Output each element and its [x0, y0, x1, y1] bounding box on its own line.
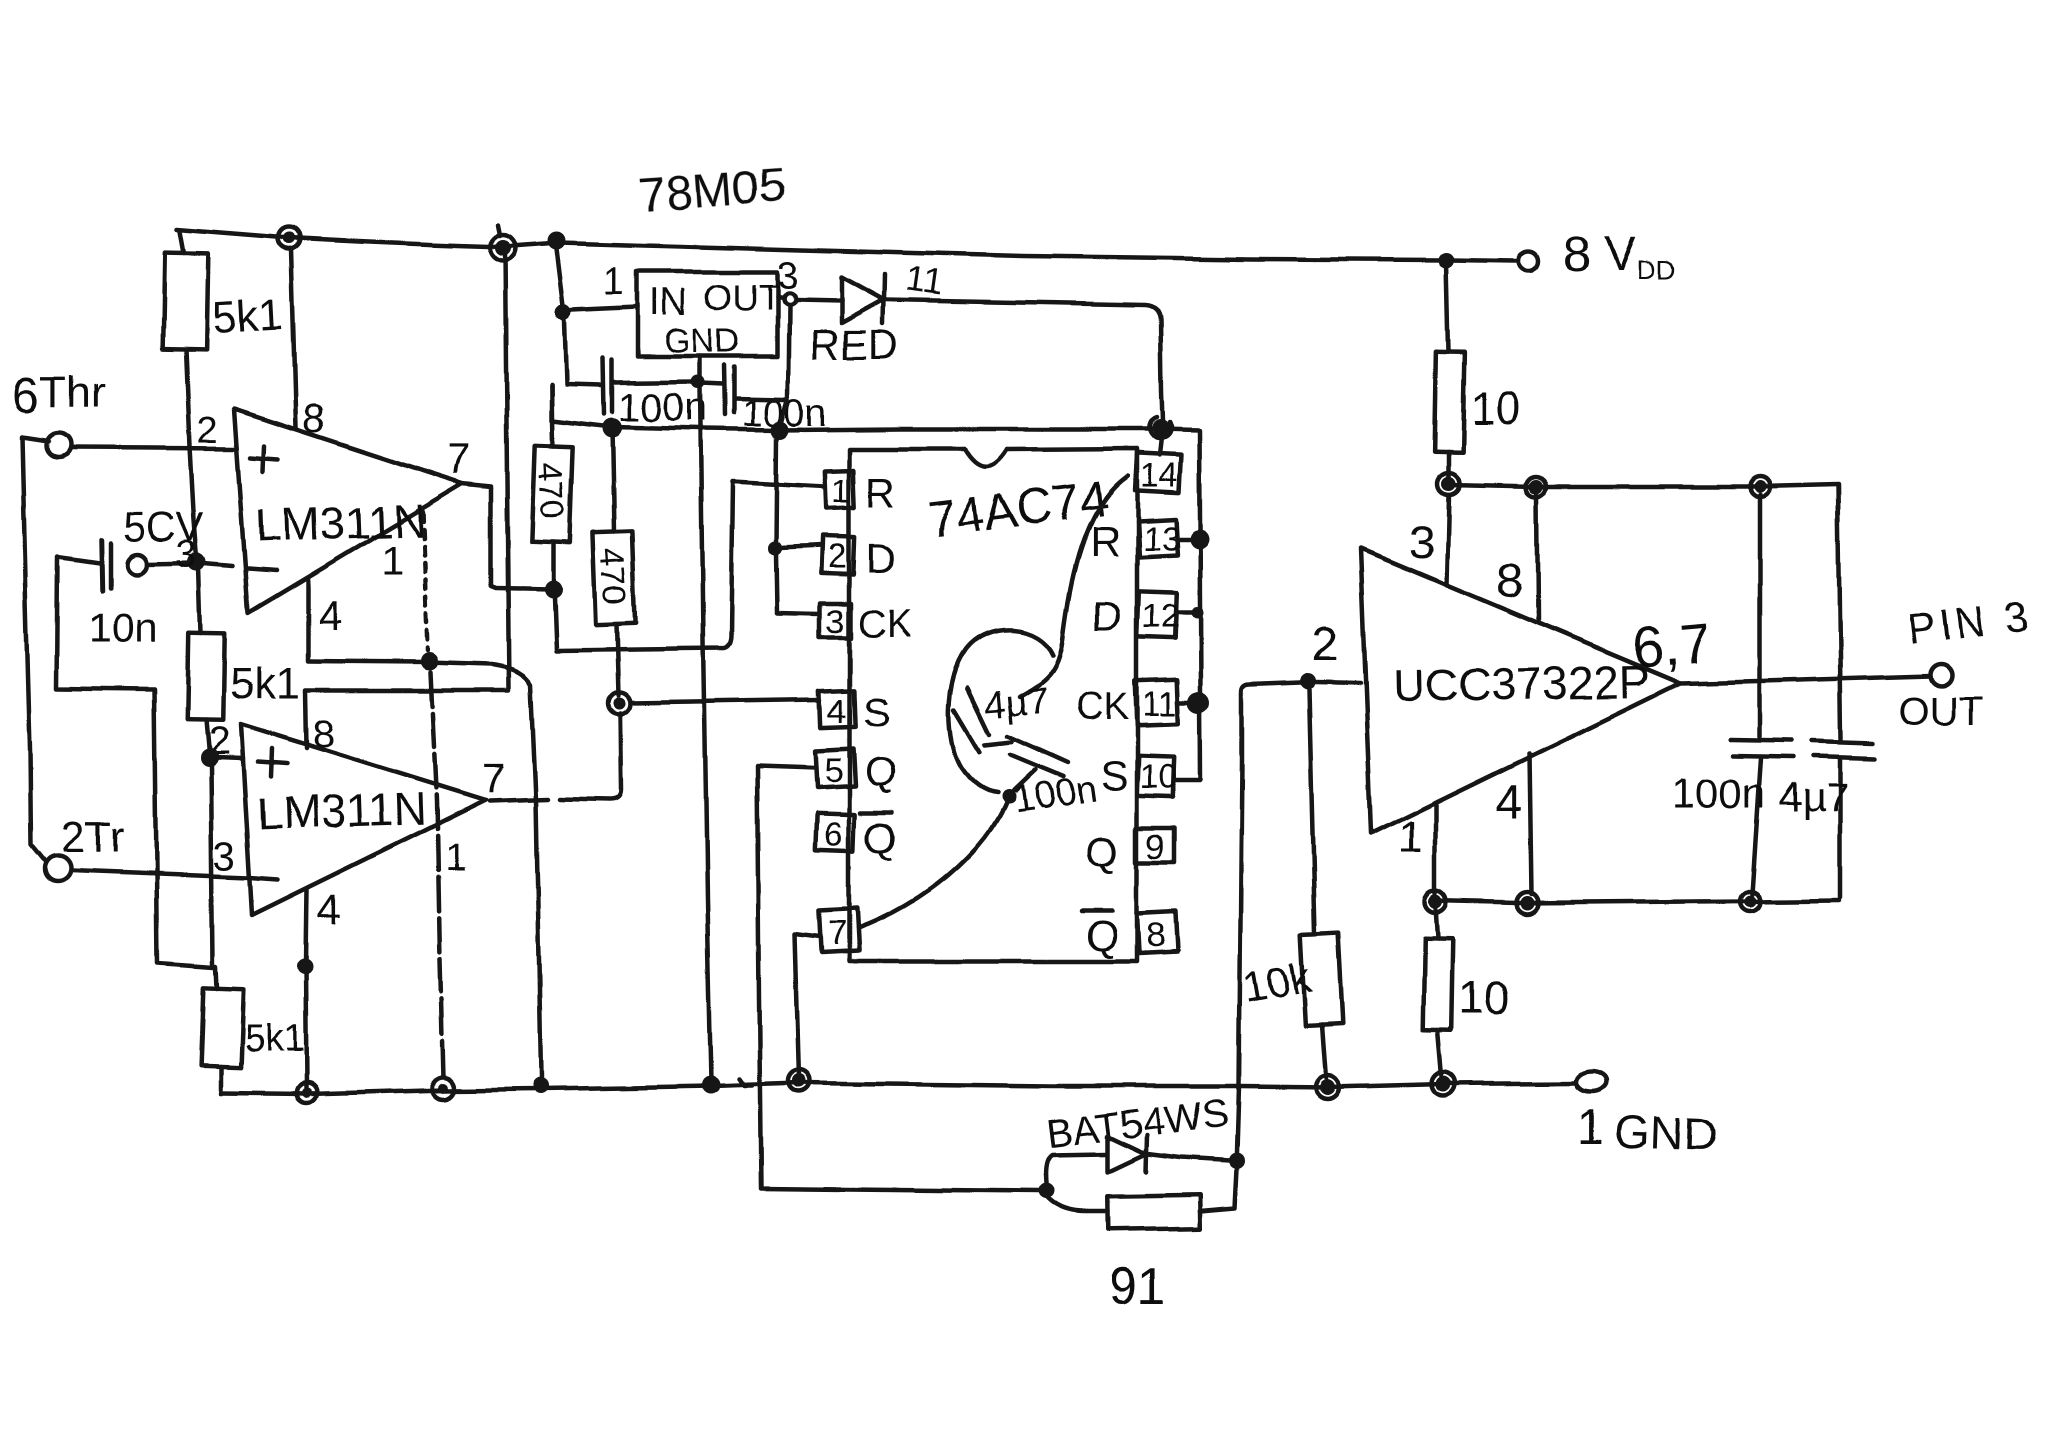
svg-text:1: 1: [604, 261, 625, 303]
svg-text:10: 10: [1470, 382, 1521, 434]
svg-text:2: 2: [1312, 618, 1339, 671]
svg-text:7: 7: [828, 914, 847, 952]
wire: U1 pin4 ground run to bottom rail: [308, 661, 541, 1078]
wire: curve from inside junction to pin 7: [858, 797, 1008, 928]
wire: UCC gnd local rail: [1433, 900, 1839, 903]
terminal 5 CV: [127, 554, 147, 574]
capacitor C4 4u7 (inside note): [1020, 476, 1128, 696]
svg-text:4: 4: [827, 692, 846, 730]
LED D1 RED: [795, 300, 841, 301]
node: junction pin13: [1189, 529, 1209, 549]
pin box 8: [1137, 911, 1177, 953]
svg-text:11: 11: [1142, 685, 1177, 723]
svg-text:5k1: 5k1: [244, 1019, 305, 1061]
wire: divider mid to lower: [211, 765, 213, 964]
svg-text:Q: Q: [864, 748, 897, 795]
svg-text:RED: RED: [810, 321, 899, 368]
svg-text:GND: GND: [1614, 1105, 1718, 1161]
svg-text:GND: GND: [664, 322, 740, 360]
wire: U2 + input stub: [216, 757, 243, 758]
svg-text:1: 1: [831, 472, 850, 510]
node: gnd rail blob pin4: [1520, 896, 1534, 910]
wire: U1 pin1 drop (dashed look) to ground rail: [423, 512, 428, 650]
node: 5V rail blob at 470 R5 / C2: [602, 418, 622, 438]
wire: Thr-Tr link (left vertical): [22, 437, 48, 862]
node: OUT pin small circle: [783, 293, 795, 305]
wire: pin13 stub: [1176, 537, 1194, 542]
svg-text:Q: Q: [1086, 912, 1119, 959]
svg-text:5: 5: [824, 752, 843, 790]
driver U4 UCC37322P: [1360, 549, 1680, 834]
wire: CV terminal to divider node: [147, 563, 196, 564]
svg-text:100n: 100n: [1672, 770, 1765, 817]
resistor R1 5k1: [180, 231, 184, 253]
node: gnd rail blob pin1: [1429, 895, 1443, 909]
svg-text:100n: 100n: [618, 386, 707, 430]
wire: UCC pin 4 stub: [1529, 753, 1531, 894]
wire: UCC pin 8 stub: [1537, 495, 1538, 620]
svg-text:R: R: [1090, 518, 1120, 565]
op-amp U2 LM311N: [241, 724, 486, 915]
terminal OUT pin3: [1930, 664, 1952, 686]
wire: IN junction down to 100n C2: [564, 320, 602, 386]
wire: regulator OUT pin to terminal dot: [777, 297, 783, 298]
node: junction pin11: [1188, 691, 1210, 713]
node: 5V rail junction at FF pin14: [1152, 419, 1170, 437]
wire: UCC output to OUT terminal: [1680, 676, 1930, 683]
wire: horizontal to U2 pin 8: [306, 690, 509, 748]
wire: U1 output to pull-up node: [462, 484, 551, 589]
node: CV junction dot: [188, 553, 206, 571]
wire: U2 pin4 to bottom rail: [306, 966, 307, 1088]
wire: U2 pin 4 down: [306, 889, 307, 962]
svg-text:CK: CK: [1076, 686, 1129, 728]
svg-text:14: 14: [1140, 457, 1178, 495]
resistor R3 5k1: [216, 966, 217, 988]
wire: pin11 stub: [1178, 700, 1194, 705]
capacitor C6 100n: [1758, 495, 1763, 737]
svg-text:S: S: [862, 688, 890, 735]
node: gnd rail blob caps: [1744, 895, 1756, 907]
wire: UCC vdd local rail: [1448, 485, 1838, 487]
svg-text:10n: 10n: [88, 604, 158, 651]
wire: FF pin 14 stub to 5V rail: [1160, 437, 1162, 455]
wire: OUT drop to 5V rail: [781, 306, 789, 424]
pin box 5: [815, 749, 855, 788]
pin box 6: [815, 813, 854, 851]
node: BAT right node: [1229, 1153, 1245, 1169]
wire: UCC pin 3 stub: [1446, 495, 1448, 585]
svg-text:8: 8: [1496, 555, 1523, 608]
svg-text:470: 470: [592, 546, 634, 605]
wire: Tr to comparator U2 - input: [70, 871, 249, 878]
resistor R2 5k1: [199, 566, 201, 634]
terminal 6 Thr: [46, 433, 70, 457]
wire: 5k1 R1 bottom to CV node: [186, 349, 197, 558]
svg-text:8: 8: [303, 397, 325, 441]
wire: UCC pin 1 stub: [1434, 805, 1439, 894]
svg-text:8: 8: [1146, 916, 1165, 954]
svg-text:IN: IN: [650, 282, 688, 324]
wire: BAT net up to UCC pin 2: [1237, 682, 1300, 1153]
pin box 3: [820, 603, 851, 638]
pin box 11: [1135, 679, 1179, 724]
wire: LED cathode to 5V rail: [884, 300, 1163, 421]
node: UCC vdd rail blob: [1441, 477, 1455, 491]
wire: U1 pin 8 to top rail: [291, 249, 296, 428]
svg-text:4µ7: 4µ7: [1778, 774, 1849, 821]
wire: raw supply top rail: [177, 229, 1516, 261]
node: junction on top rail at 5k1 R1: [283, 232, 295, 244]
node: junction pin 8 drop: [1529, 480, 1543, 494]
resistor R7 10 (top): [1446, 262, 1448, 352]
capacitor C2 100n: [603, 358, 604, 414]
wire: S-net to flip-flop pin 4: [630, 700, 820, 703]
svg-text:6,7: 6,7: [1630, 610, 1713, 680]
svg-text:3: 3: [1408, 516, 1434, 568]
terminal 8 VDD: [1519, 251, 1539, 271]
wire: U1 pin 4 stub: [306, 578, 311, 660]
node: BAT left node: [1038, 1183, 1054, 1199]
pin box 2: [821, 536, 854, 574]
pin box 12: [1137, 591, 1177, 638]
svg-text:UCC37322P: UCC37322P: [1391, 655, 1650, 711]
svg-text:1: 1: [381, 539, 403, 583]
pin box 1: [824, 469, 854, 508]
svg-text:2: 2: [197, 410, 218, 452]
wire: 470 bottom node to flip-flop pin 1 (R): [554, 481, 824, 650]
node: rail junction U2 pin4: [303, 1088, 313, 1098]
node: scribble junction S-net: [613, 698, 625, 710]
wire: top rail to regulator IN: [556, 249, 563, 306]
wire: C3 right plate to OUT drop: [735, 399, 785, 400]
node: rail junction 10 bottom: [1436, 1076, 1452, 1092]
svg-text:10: 10: [1140, 758, 1178, 796]
resistor R5 470 (pull-up of U2): [612, 428, 614, 531]
node: junction pin4/divider return: [297, 958, 313, 974]
pin box 13: [1137, 519, 1177, 557]
capacitor C7 4u7: [1838, 486, 1841, 739]
op-amp U1 LM311N: [234, 409, 463, 613]
wire: FF pin7 to ground rail: [795, 933, 820, 1078]
wire: FF pin5 (Q) to BAT54WS net: [757, 766, 1038, 1191]
wire: 470 R4 top overshoot across rail: [549, 385, 554, 419]
node: gnd pin junction with caps: [691, 375, 705, 389]
svg-text:4µ7: 4µ7: [983, 680, 1051, 727]
svg-text:3: 3: [777, 255, 798, 297]
pin box 4: [819, 689, 854, 727]
svg-text:5k1: 5k1: [230, 659, 301, 708]
resistor R4 470 (pull-up of U1): [551, 385, 552, 446]
svg-text:2: 2: [828, 538, 847, 576]
svg-text:4: 4: [1495, 776, 1522, 829]
IC U3 74AC74 body: [849, 449, 1137, 961]
wire: D/CK drop from 5V rail: [776, 438, 777, 545]
svg-text:1: 1: [1398, 811, 1424, 863]
pin box 10: [1137, 755, 1174, 796]
node: junction divider to U2 + input: [200, 748, 218, 766]
svg-text:D: D: [866, 534, 896, 581]
pin box 7: [819, 908, 859, 952]
svg-text:5k1: 5k1: [211, 290, 284, 343]
svg-text:LM311N: LM311N: [256, 782, 428, 840]
pin box 9: [1136, 828, 1174, 862]
node: U1 output junction on 470 pull-up: [544, 580, 562, 598]
svg-text:11: 11: [903, 257, 946, 303]
terminal 1 GND: [1576, 1072, 1606, 1092]
svg-text:Q: Q: [864, 814, 897, 861]
svg-text:3: 3: [176, 534, 197, 576]
wire: junction to UCC pin 2: [1316, 682, 1360, 683]
svg-text:3: 3: [214, 835, 236, 879]
svg-text:10: 10: [1458, 972, 1509, 1024]
node: IN junction dot: [555, 304, 571, 320]
svg-text:7: 7: [447, 436, 470, 483]
svg-text:9: 9: [1146, 828, 1165, 866]
wire: regulator GND pin down: [698, 356, 703, 378]
node: junction 100n drop: [1754, 481, 1766, 493]
svg-text:CK: CK: [858, 603, 911, 645]
wire: D stub to FF pin 2: [780, 546, 822, 548]
svg-text:91: 91: [1108, 1258, 1166, 1316]
wire: small jog on ground rail: [739, 1079, 752, 1086]
capacitor C3 100n: [724, 365, 725, 415]
wire: regulator gnd down to bottom rail: [700, 386, 711, 1082]
wire: 5V rail: [551, 420, 1199, 430]
node: junction on top rail (78M05 IN drop): [547, 232, 565, 250]
svg-text:8: 8: [313, 712, 335, 756]
svg-text:D: D: [1092, 592, 1122, 639]
svg-text:Q: Q: [1086, 828, 1119, 875]
node: junction D stub: [768, 541, 782, 555]
svg-text:12: 12: [1142, 598, 1180, 636]
node: junction pin2/10k: [1300, 673, 1316, 689]
terminal 2 Tr: [44, 856, 70, 882]
svg-text:470: 470: [530, 461, 571, 520]
node: 5V rail blob at OUT/D-CK drop: [771, 421, 789, 439]
resistor R9 10 (bottom): [1436, 906, 1438, 939]
wire: ground bottom rail: [221, 1083, 1575, 1094]
node: rail junction FF pin7: [792, 1074, 806, 1088]
svg-text:4: 4: [317, 886, 340, 933]
svg-text:6: 6: [824, 816, 843, 854]
node: rail junction regulator gnd: [702, 1076, 720, 1094]
svg-text:OUT: OUT: [1898, 690, 1982, 734]
pin box 14: [1135, 453, 1181, 493]
svg-text:Thr: Thr: [40, 367, 106, 416]
svg-text:1: 1: [445, 837, 466, 879]
wire: drop continues to CK level: [776, 553, 777, 612]
wire: C2 right plate to gnd pin line: [613, 382, 695, 383]
wire: CV node to U1 - input: [198, 563, 232, 566]
wire: 10n return (left plate to lower divider area): [57, 557, 214, 967]
wire: long drop from top rail to U2 pin 8: [505, 250, 509, 689]
node: rail junction U1 pin4 net: [532, 1078, 548, 1094]
svg-text:4: 4: [318, 592, 341, 639]
node: junction inside chip: [1001, 790, 1015, 804]
svg-text:7: 7: [482, 754, 505, 801]
wire: gnd junction to C3 left plate: [701, 383, 723, 384]
node: junction pin12: [1191, 607, 1203, 619]
wire: 5V bus right vertical to pin 10: [1176, 431, 1201, 780]
wire: Thr to comparator U1 + input: [70, 448, 233, 449]
wire: IN junction to regulator: [571, 307, 638, 310]
wire: pin12 stub: [1176, 611, 1192, 616]
node: junction on top rail (10 ohm drop): [1438, 252, 1454, 268]
resistor R8 91: [1046, 1196, 1108, 1212]
resistor R6 10k: [1309, 689, 1315, 934]
node: junction U1 pin4 gnd wire with pin1 drop: [421, 652, 439, 670]
node: rail junction pin1 drop: [438, 1083, 448, 1093]
svg-text:6: 6: [12, 367, 40, 423]
svg-text:78M05: 78M05: [637, 160, 787, 223]
wire: S-net down to U2 output: [490, 714, 621, 801]
capacitor C5 100n (inside note): [985, 742, 1012, 745]
node: scribble junction on top rail (long drop): [495, 240, 511, 256]
node: rail junction 10k: [1319, 1079, 1335, 1095]
svg-text:2Tr: 2Tr: [60, 813, 124, 862]
svg-text:1: 1: [1577, 1101, 1604, 1154]
svg-text:S: S: [1100, 752, 1128, 799]
svg-text:R: R: [866, 469, 896, 516]
svg-text:3: 3: [826, 603, 845, 641]
svg-text:OUT: OUT: [704, 277, 780, 318]
wire: CK stub to FF pin 3: [777, 613, 820, 614]
